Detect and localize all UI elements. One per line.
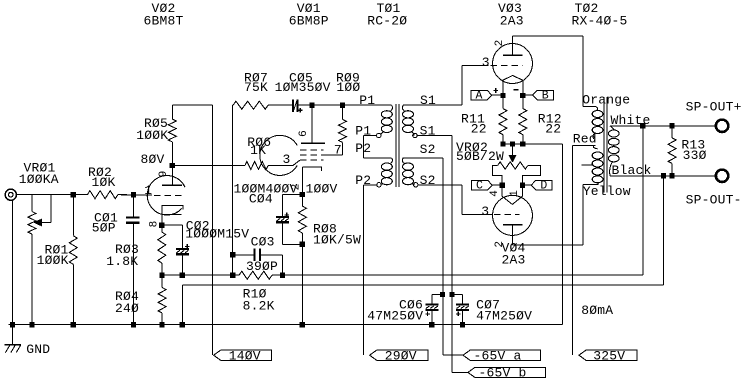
svg-text:1ØØK: 1ØØK	[37, 253, 69, 268]
svg-text:B: B	[542, 90, 549, 103]
svg-text:8: 8	[149, 221, 161, 228]
VR01 wiper arrow	[35, 219, 42, 226]
svg-text:29ØV: 29ØV	[385, 348, 417, 363]
svg-text:8ØmA: 8ØmA	[581, 303, 613, 318]
svg-text:33Ø: 33Ø	[683, 148, 707, 163]
V01 grid2 (dashed)	[300, 154, 324, 156]
wire R08 to ground	[301, 244, 303, 324]
svg-text:22: 22	[471, 122, 487, 137]
node feedback tap	[640, 123, 645, 128]
junction ground bus	[71, 322, 76, 327]
svg-text:8ØV: 8ØV	[141, 152, 165, 167]
VR02 wiper	[512, 144, 514, 156]
transformer T01 core	[395, 104, 397, 187]
svg-text:D: D	[540, 180, 547, 193]
svg-text:9: 9	[158, 171, 170, 178]
svg-text:1ØØK: 1ØØK	[136, 128, 168, 143]
svg-text:-65V a: -65V a	[474, 348, 522, 363]
node R10 right	[280, 273, 285, 278]
wire S1 to V03 grid	[403, 104, 462, 106]
VR02 left lead	[492, 166, 502, 186]
White output wire	[610, 125, 716, 127]
V04 grid (dashed)	[494, 214, 520, 216]
V03 grid (dashed)	[491, 65, 523, 67]
svg-text:P2: P2	[355, 141, 371, 156]
V02 plate	[162, 184, 182, 186]
svg-text:75K: 75K	[244, 80, 268, 95]
svg-text:22: 22	[545, 122, 561, 137]
wire Red tap to 325V	[572, 145, 574, 355]
node V04 fil C	[500, 183, 505, 188]
ground symbol	[12, 325, 14, 345]
ground bus	[8, 324, 562, 326]
svg-text:S1: S1	[420, 123, 436, 138]
node V03 fil A	[500, 93, 505, 98]
svg-text:S1: S1	[420, 93, 436, 108]
node V02 plate	[170, 163, 175, 168]
svg-text:3: 3	[283, 152, 291, 167]
minus mark	[513, 89, 518, 91]
wire cathode node to R10	[162, 274, 233, 276]
triode V04 2A3 envelope	[493, 195, 533, 235]
wire R09 to pin 7	[324, 154, 343, 156]
svg-text:2: 2	[494, 40, 506, 47]
junction ground bus	[29, 322, 34, 327]
junction ground bus	[160, 322, 165, 327]
svg-text:1.8K: 1.8K	[106, 254, 138, 269]
svg-text:S2: S2	[420, 173, 436, 188]
wire C05 to T01 P1	[299, 104, 392, 106]
svg-text:A: A	[476, 90, 483, 103]
wire V04 plate to T02 Yellow	[513, 244, 583, 246]
svg-text:47M25ØV: 47M25ØV	[476, 308, 532, 323]
svg-text:3: 3	[481, 204, 489, 219]
wire speaker return to ground	[182, 284, 663, 286]
svg-text:1ØØKA: 1ØØKA	[19, 172, 59, 187]
flag 290V	[370, 350, 428, 360]
wire R02 to V02 grid	[118, 194, 152, 196]
svg-text:-65V b: -65V b	[479, 366, 527, 381]
node V02 cathode bias	[160, 273, 165, 278]
node C06 top	[440, 292, 445, 297]
svg-text:7: 7	[334, 143, 342, 158]
node V03 fil B	[520, 93, 525, 98]
svg-text:RX-4Ø-5: RX-4Ø-5	[572, 14, 628, 29]
wire V03 grid lead	[462, 65, 489, 67]
svg-text:1ØØØM15V: 1ØØØM15V	[185, 226, 249, 241]
svg-text:3: 3	[482, 55, 490, 70]
wire R06 to V01 grid	[268, 165, 293, 167]
V01 cathode	[303, 167, 322, 171]
VR02 right lead	[522, 166, 540, 186]
svg-text:P1: P1	[359, 93, 375, 108]
flag 325V	[579, 350, 637, 360]
V01 plate	[311, 105, 313, 143]
flag B	[533, 90, 554, 99]
wire jack to R02	[16, 194, 87, 196]
junction ground bus	[180, 322, 185, 327]
svg-text:Red: Red	[573, 132, 597, 147]
wire rail to ground bus	[561, 144, 563, 325]
svg-text:Yellow: Yellow	[583, 184, 631, 199]
svg-text:1: 1	[144, 183, 152, 198]
svg-text:4: 4	[489, 190, 501, 197]
flag 140V	[214, 350, 272, 360]
V01 grid1 (dashed)	[300, 159, 324, 161]
wire R05 top to B+ rail	[172, 104, 212, 106]
svg-text:24Ø: 24Ø	[115, 301, 139, 316]
filament center rail to ground	[503, 143, 562, 145]
junction ground bus	[429, 322, 434, 327]
svg-text:S2: S2	[420, 142, 436, 157]
input jack J1	[5, 189, 16, 200]
node R13 bottom	[670, 173, 675, 178]
V03 filament	[503, 76, 523, 81]
svg-text:Orange: Orange	[582, 92, 630, 107]
svg-text:CØ4: CØ4	[249, 191, 273, 206]
flag -65V b	[468, 367, 546, 377]
Black output wire	[610, 175, 716, 177]
wire feedback line to output	[282, 274, 642, 276]
wire P2 tap to B+ 290V	[363, 184, 376, 186]
V03 plate	[503, 54, 523, 56]
flag D	[531, 180, 552, 189]
stub tap	[582, 164, 594, 166]
transformer T02 core	[603, 97, 605, 193]
capacitor C04 (cathode bypass)	[283, 194, 303, 196]
svg-text:6BM8T: 6BM8T	[143, 14, 183, 29]
wire jack sleeve to ground bus	[12, 200, 14, 325]
node C07 top	[449, 292, 454, 297]
wire S2 tap to V04 grid	[418, 184, 462, 186]
svg-text:5ØB/2W: 5ØB/2W	[456, 149, 504, 164]
svg-text:8.2K: 8.2K	[243, 299, 275, 314]
svg-text:6: 6	[298, 130, 310, 137]
flag -65V a	[463, 350, 541, 360]
V04 plate	[503, 224, 523, 226]
svg-text:1ØK: 1ØK	[92, 175, 116, 190]
node V02 cathode	[159, 223, 164, 228]
triode V02 6BM8 envelope	[147, 176, 185, 215]
wire V02 plate to R06	[172, 165, 245, 167]
V04 filament	[502, 196, 522, 204]
svg-text:6BM8P: 6BM8P	[289, 14, 329, 29]
node grid V02	[131, 192, 136, 197]
pentode V01 6BM8 envelope	[260, 135, 297, 175]
node V01 cathode	[300, 192, 305, 197]
node V01 plate	[309, 103, 314, 108]
V01 grid3 (dashed)	[300, 149, 324, 151]
wire return riser to Black	[663, 176, 665, 285]
svg-text:2A3: 2A3	[500, 14, 524, 29]
V02 cathode	[162, 205, 183, 214]
svg-text:2A3: 2A3	[502, 253, 526, 268]
node junction input	[71, 192, 76, 197]
wire P1 tap	[363, 135, 376, 137]
node R10 left	[230, 273, 235, 278]
wire S1 tap to bias b	[417, 135, 452, 137]
wire V03 plate to T02 Orange	[513, 35, 583, 37]
svg-text:2: 2	[494, 241, 506, 248]
node C03 top-left	[230, 252, 235, 257]
svg-text:1K: 1K	[250, 143, 266, 158]
flag C	[472, 180, 493, 189]
junction ground bus	[460, 322, 465, 327]
svg-text:SP-OUT-: SP-OUT-	[686, 193, 742, 208]
svg-text:C: C	[476, 180, 483, 193]
junction ground bus	[10, 322, 15, 327]
flag A	[471, 90, 492, 99]
svg-text:RC-2Ø: RC-2Ø	[367, 14, 407, 29]
svg-text:1ØØ: 1ØØ	[336, 80, 360, 95]
node R09 top	[340, 103, 345, 108]
node return tap	[661, 173, 666, 178]
svg-text:14ØV: 14ØV	[229, 348, 261, 363]
svg-text:39ØP: 39ØP	[246, 259, 278, 274]
svg-text:CØ3: CØ3	[251, 234, 275, 249]
wire VR01 wiper	[42, 222, 52, 224]
svg-text:325V: 325V	[593, 348, 625, 363]
wire R07 to R10/C03	[232, 105, 234, 255]
junction ground bus	[300, 322, 305, 327]
node R13 top	[670, 123, 675, 128]
svg-text:5ØP: 5ØP	[92, 221, 116, 236]
node C02 bottom	[180, 273, 185, 278]
junction ground bus	[131, 322, 136, 327]
node V04 fil D	[520, 183, 525, 188]
svg-text:1ØK/5W: 1ØK/5W	[313, 233, 361, 248]
node R08 bottom	[300, 242, 305, 247]
triode V03 2A3 envelope	[493, 44, 533, 84]
svg-text:SP-OUT+: SP-OUT+	[686, 100, 742, 115]
V02 grid (dashed)	[154, 194, 183, 196]
wire feedback riser	[642, 126, 644, 275]
wire S2 to bias a	[403, 157, 443, 159]
svg-text:GND: GND	[26, 342, 50, 357]
svg-text:47M25ØV: 47M25ØV	[367, 308, 423, 323]
svg-text:1ØM35ØV: 1ØM35ØV	[275, 80, 331, 95]
wire B+ 140V drop	[212, 105, 214, 355]
